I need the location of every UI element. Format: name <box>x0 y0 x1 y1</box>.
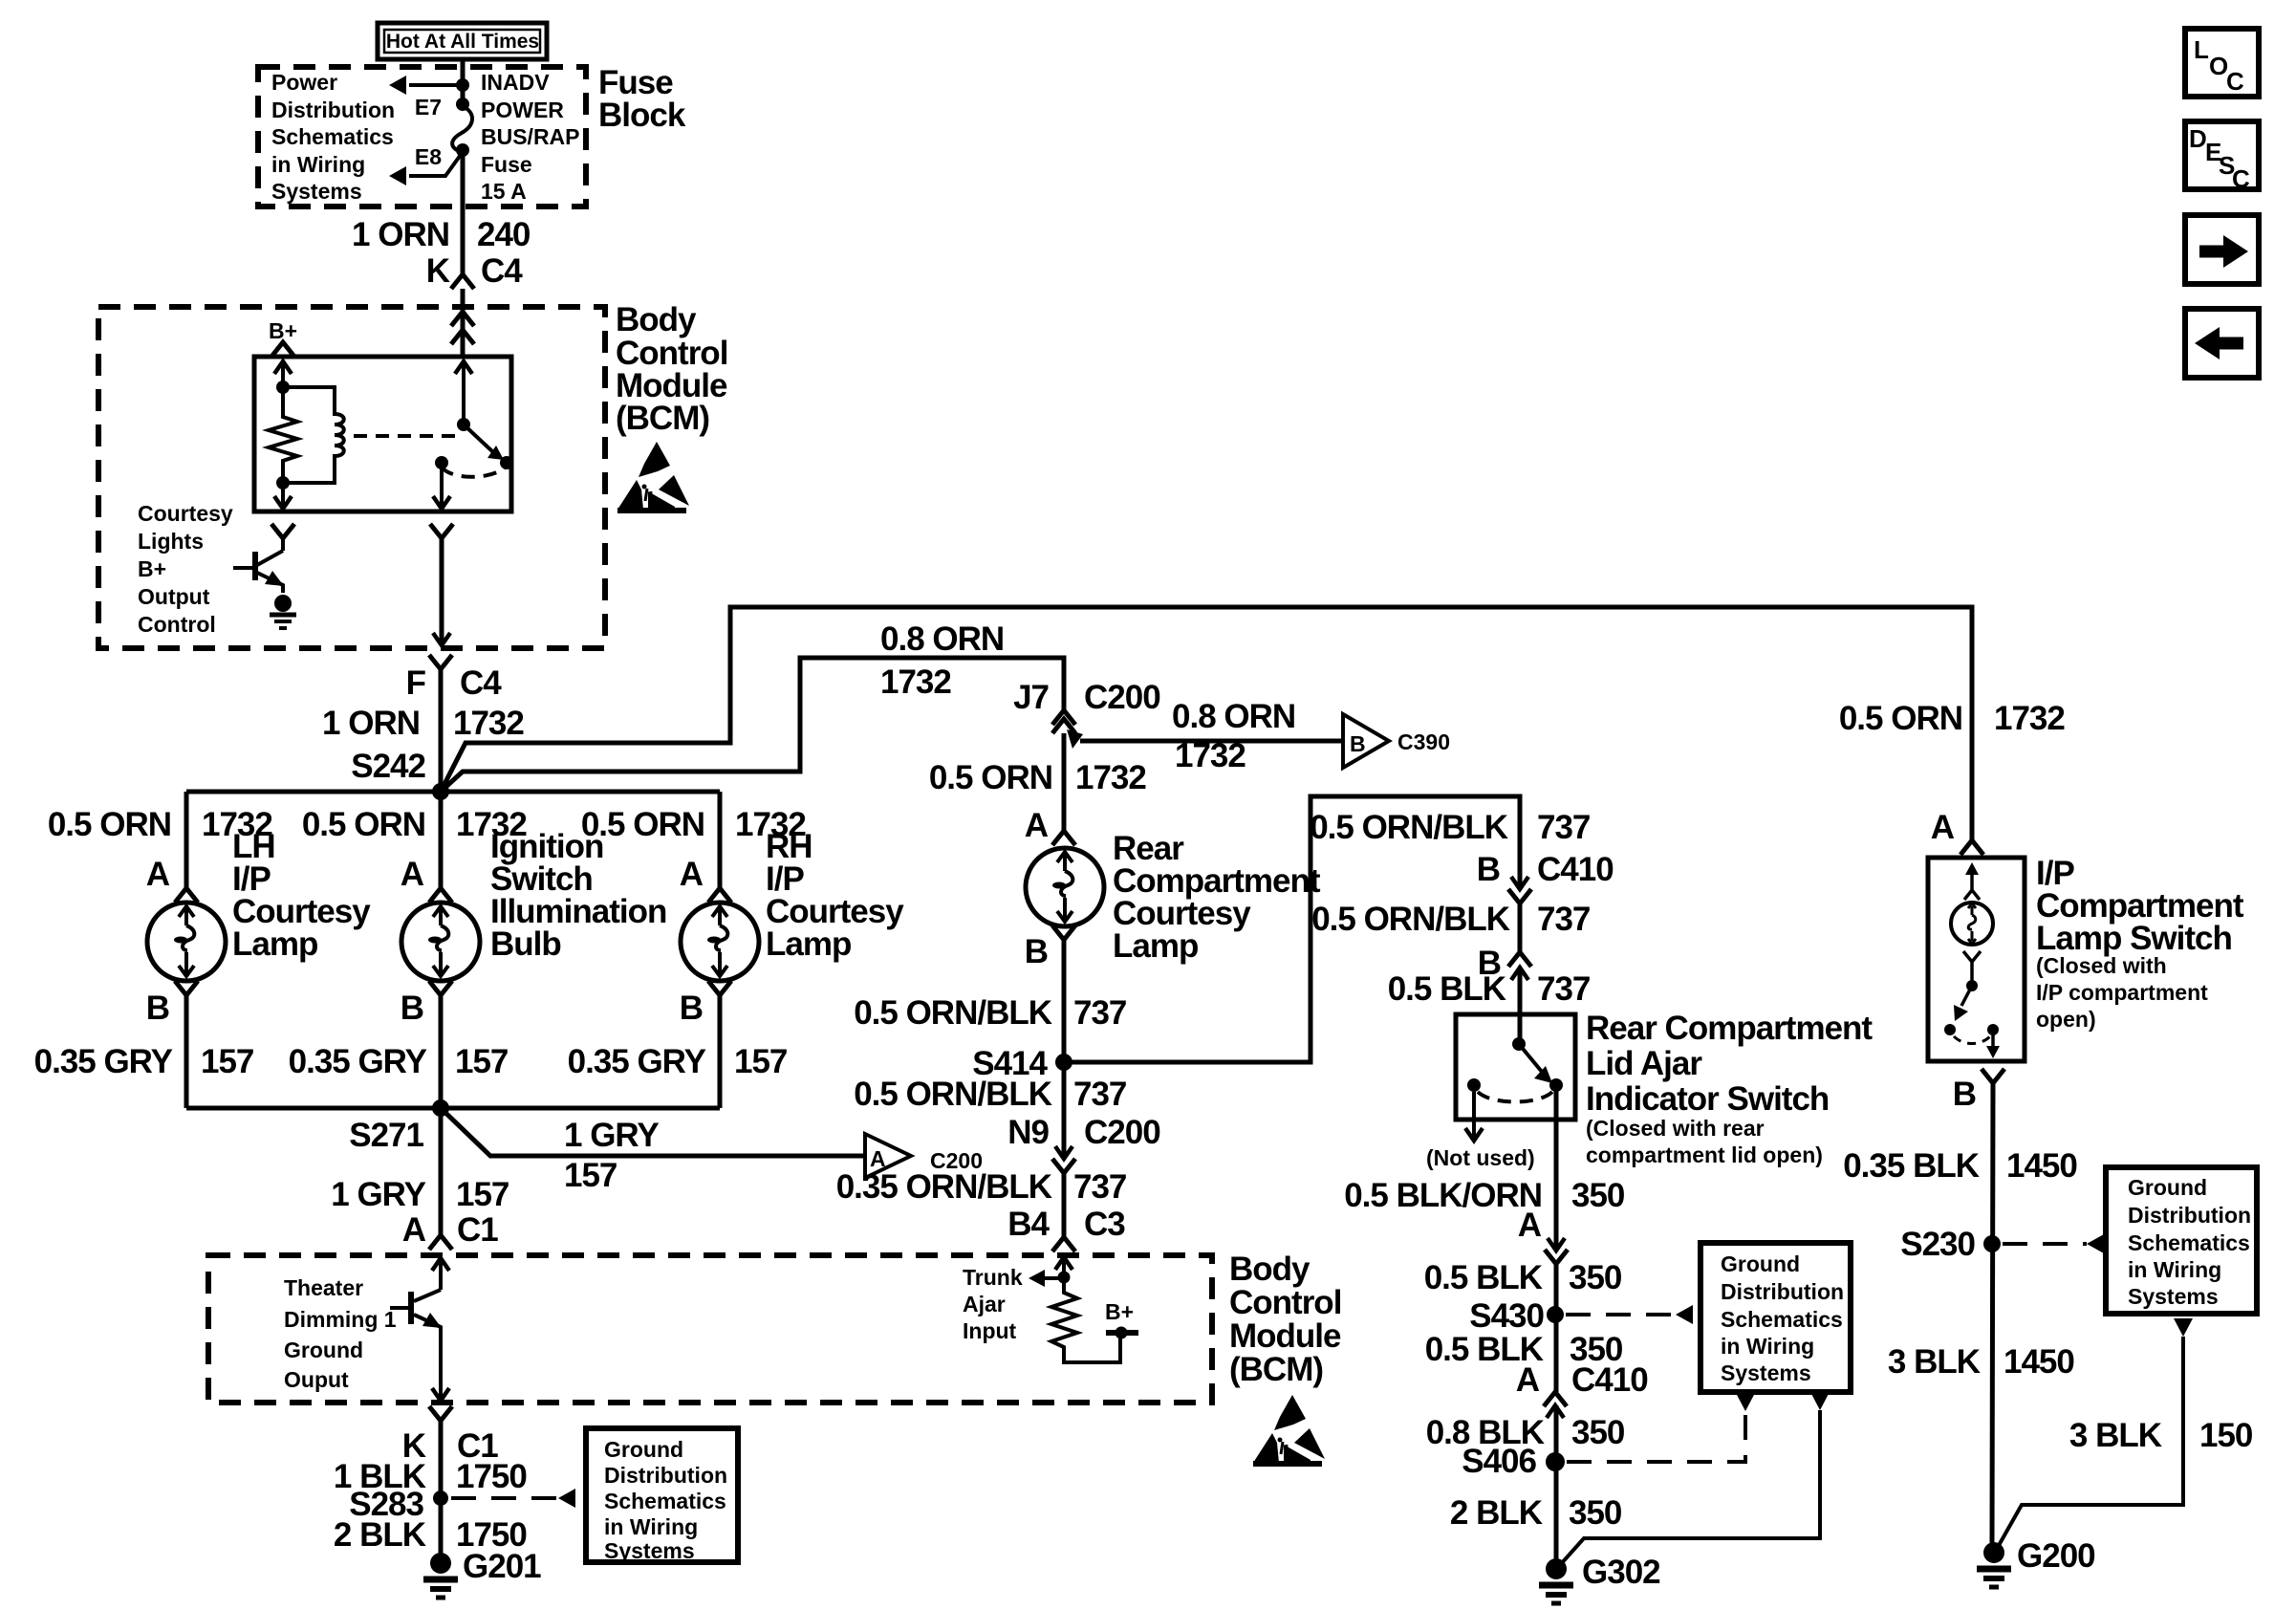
svg-text:1732: 1732 <box>880 664 951 701</box>
wire LH lamp drop <box>184 792 189 888</box>
label Ignition Switch Illumination Bulb <box>490 828 666 963</box>
lamp feed bus <box>186 790 720 794</box>
arrow trunk ajar input <box>1029 1270 1064 1287</box>
dashed link S230 to ground distribution box <box>2003 1234 2104 1253</box>
lamp RH I/P courtesy <box>681 903 759 981</box>
wire into theater dimming transistor <box>432 1258 449 1290</box>
wire IP switch to S230 <box>1992 1083 1993 1543</box>
arrow to power distribution (top) <box>389 76 469 95</box>
svg-text:1732: 1732 <box>1075 759 1146 796</box>
svg-text:1 GRY: 1 GRY <box>331 1176 425 1213</box>
svg-text:157: 157 <box>201 1043 253 1080</box>
svg-text:Lights: Lights <box>138 529 204 554</box>
svg-text:S430: S430 <box>1469 1297 1544 1335</box>
svg-text:Body: Body <box>1229 1251 1310 1288</box>
connector K C1 <box>429 1406 452 1421</box>
svg-text:S230: S230 <box>1900 1226 1975 1263</box>
svg-text:Lamp: Lamp <box>232 925 317 963</box>
pin B (rear lamp) <box>1052 925 1075 940</box>
arrow to power distribution (bottom) <box>389 152 463 185</box>
wire LH lamp to ground bus <box>184 995 189 1108</box>
wire to transistor <box>281 538 285 551</box>
svg-text:A: A <box>402 1211 426 1249</box>
IP compartment lamp switch box <box>1928 858 2025 1061</box>
svg-text:737: 737 <box>1537 901 1590 938</box>
IP switch input arrow <box>1964 862 1980 900</box>
svg-text:G201: G201 <box>463 1548 541 1585</box>
svg-text:2 BLK: 2 BLK <box>1450 1494 1543 1532</box>
label INADV POWER BUS/RAP Fuse 15 A <box>481 70 580 204</box>
svg-text:(Not used): (Not used) <box>1426 1145 1535 1170</box>
icon arrow right <box>2185 215 2259 284</box>
ground G201 <box>423 1553 458 1598</box>
lid switch dashed arc <box>1478 1092 1552 1102</box>
svg-text:1 ORN: 1 ORN <box>352 216 449 253</box>
connector B C390 (triangle) <box>1343 714 1450 768</box>
svg-text:C410: C410 <box>1571 1361 1648 1399</box>
svg-text:POWER: POWER <box>481 98 564 122</box>
svg-text:350: 350 <box>1571 1177 1625 1214</box>
node B+ (trunk ajar) <box>1105 1299 1138 1339</box>
relay switch arm <box>464 424 513 469</box>
svg-text:in Wiring: in Wiring <box>1721 1334 1814 1359</box>
hot-at-all-times box <box>378 23 547 59</box>
arrow at BCM bottom exit <box>432 1388 449 1401</box>
svg-text:(Closed with rear: (Closed with rear <box>1586 1116 1765 1141</box>
svg-text:0.5 BLK: 0.5 BLK <box>1388 970 1506 1008</box>
svg-text:2 BLK: 2 BLK <box>334 1516 426 1554</box>
svg-text:0.5 ORN/BLK: 0.5 ORN/BLK <box>854 994 1052 1032</box>
svg-text:Lamp: Lamp <box>766 925 851 963</box>
svg-text:Module: Module <box>1229 1317 1341 1355</box>
fuse block dashed box <box>258 67 586 207</box>
label Body Control Module (BCM) <box>616 301 727 437</box>
svg-text:0.35 GRY: 0.35 GRY <box>34 1043 173 1080</box>
transistor Q1 <box>233 551 284 593</box>
svg-text:INADV: INADV <box>481 70 550 95</box>
label Body Control Module (BCM) (lower) <box>1229 1251 1341 1388</box>
resistor R2 trunk ajar pull-up <box>1051 1277 1120 1362</box>
svg-text:Distribution: Distribution <box>271 98 395 122</box>
svg-text:(Closed with: (Closed with <box>2036 953 2167 978</box>
svg-text:0.8 ORN: 0.8 ORN <box>880 620 1004 658</box>
ESD symbol U1 <box>617 442 689 513</box>
svg-text:Lamp Switch: Lamp Switch <box>2036 920 2232 957</box>
svg-text:0.8 ORN: 0.8 ORN <box>1172 698 1295 735</box>
svg-text:in Wiring: in Wiring <box>2128 1257 2221 1282</box>
svg-text:B: B <box>146 990 169 1027</box>
relay coil L1 <box>283 387 344 483</box>
icon LOC <box>2185 29 2259 97</box>
IP switch dashed arc <box>1954 1036 1990 1044</box>
lid switch pivot and arm <box>1512 1037 1552 1083</box>
dashed link S406 to ground distribution box <box>1567 1393 1755 1462</box>
svg-text:0.5 ORN: 0.5 ORN <box>1839 700 1962 737</box>
relay switch input wire <box>455 361 472 431</box>
svg-text:Lamp: Lamp <box>1113 927 1198 965</box>
svg-text:in Wiring: in Wiring <box>604 1514 698 1539</box>
label I/P Compartment Lamp Switch <box>2036 855 2244 1032</box>
resistor R1 <box>269 387 297 483</box>
svg-text:1732: 1732 <box>1175 737 1245 774</box>
svg-text:A: A <box>680 856 704 893</box>
svg-text:BUS/RAP: BUS/RAP <box>481 124 580 149</box>
svg-text:B: B <box>680 990 703 1027</box>
svg-text:Lid Ajar: Lid Ajar <box>1586 1045 1702 1082</box>
IP switch contacts <box>1944 1024 1956 1035</box>
wire RH lamp to ground bus <box>718 995 723 1108</box>
svg-text:Fuse: Fuse <box>481 152 532 177</box>
svg-text:Indicator Switch: Indicator Switch <box>1586 1080 1829 1118</box>
wire into BCM trunk ajar input <box>1055 1257 1072 1284</box>
svg-text:A: A <box>1518 1207 1542 1244</box>
svg-text:A: A <box>401 856 424 893</box>
lamp rear compartment courtesy <box>1026 848 1104 926</box>
svg-text:1732: 1732 <box>453 705 524 742</box>
svg-text:Theater: Theater <box>284 1275 363 1300</box>
wire RH lamp drop <box>718 792 723 888</box>
label RH I/P Courtesy Lamp <box>766 828 904 963</box>
svg-text:240: 240 <box>477 216 531 253</box>
ground (transistor emitter) <box>270 595 296 628</box>
svg-text:Schematics: Schematics <box>604 1489 726 1513</box>
svg-text:Systems: Systems <box>1721 1360 1811 1385</box>
svg-text:C410: C410 <box>1537 851 1614 888</box>
relay coil feed wire <box>274 361 292 394</box>
body control module BCM dashed box <box>98 307 605 648</box>
svg-text:0.35 BLK: 0.35 BLK <box>1843 1147 1979 1185</box>
svg-text:B+: B+ <box>1105 1299 1134 1324</box>
svg-text:737: 737 <box>1537 970 1590 1008</box>
wire ignition bulb drop <box>439 792 444 888</box>
svg-text:737: 737 <box>1073 1168 1126 1206</box>
lamp ground bus <box>186 1106 720 1111</box>
svg-text:F: F <box>406 664 426 702</box>
svg-text:1450: 1450 <box>2006 1147 2077 1185</box>
ground distribution schematics box (middle) <box>1700 1243 1851 1392</box>
label Courtesy Lights B+ Output Control <box>138 501 233 637</box>
IP switch pivot and arm <box>1954 962 1978 1021</box>
svg-text:S271: S271 <box>349 1117 423 1154</box>
svg-text:0.5 ORN/BLK: 0.5 ORN/BLK <box>1310 809 1508 846</box>
svg-text:Body: Body <box>616 301 697 338</box>
svg-text:K: K <box>426 252 450 290</box>
svg-text:Distribution: Distribution <box>1721 1279 1844 1304</box>
svg-text:B: B <box>1477 851 1500 888</box>
svg-text:Block: Block <box>598 97 686 134</box>
svg-text:157: 157 <box>564 1157 617 1194</box>
wire C410 to lid switch <box>1518 903 1523 952</box>
svg-text:C1: C1 <box>457 1211 498 1249</box>
svg-text:open): open) <box>2036 1007 2096 1032</box>
wire to S430 <box>1554 1264 1559 1392</box>
svg-text:B: B <box>1350 731 1366 756</box>
svg-text:Ajar: Ajar <box>963 1292 1006 1316</box>
wire S271 branch to C200 <box>441 1108 865 1156</box>
body control module BCM dashed box (theater dimming) <box>208 1255 1212 1403</box>
svg-text:(BCM): (BCM) <box>616 400 709 437</box>
svg-text:B+: B+ <box>138 556 166 581</box>
svg-text:Input: Input <box>963 1318 1017 1343</box>
dashed link S430 to ground distribution box <box>1566 1305 1693 1324</box>
svg-text:E7: E7 <box>415 95 442 120</box>
svg-text:Systems: Systems <box>271 179 362 204</box>
svg-text:0.5 ORN: 0.5 ORN <box>929 759 1052 796</box>
wire S242 branch to 0.8 ORN run <box>441 658 1064 792</box>
pin B (mid) <box>429 981 452 995</box>
svg-text:Schematics: Schematics <box>271 124 394 149</box>
svg-text:Schematics: Schematics <box>2128 1230 2250 1255</box>
svg-text:Power: Power <box>271 70 337 95</box>
connector chevrons at BCM top <box>451 312 474 326</box>
svg-text:0.5 BLK: 0.5 BLK <box>1424 1259 1543 1296</box>
svg-text:1 ORN: 1 ORN <box>322 705 420 742</box>
lamp LH I/P courtesy <box>147 903 226 981</box>
svg-text:Rear Compartment: Rear Compartment <box>1586 1010 1873 1047</box>
ground G200 <box>1977 1542 2011 1587</box>
svg-text:1 GRY: 1 GRY <box>564 1117 659 1154</box>
svg-text:3 BLK: 3 BLK <box>2069 1417 2162 1454</box>
wire N9 to BCM trunk ajar <box>1062 1173 1067 1237</box>
svg-text:G200: G200 <box>2017 1537 2095 1575</box>
svg-text:Dimming 1: Dimming 1 <box>284 1307 397 1332</box>
wire to S242 <box>439 669 444 792</box>
label LH I/P Courtesy Lamp <box>232 828 371 963</box>
svg-text:N9: N9 <box>1007 1114 1049 1151</box>
wire lid switch output <box>1554 1085 1559 1251</box>
wire S271 to BCM theater dimming <box>439 1108 444 1235</box>
svg-text:737: 737 <box>1073 1076 1126 1113</box>
link ground distribution box to G200 <box>1997 1318 2193 1549</box>
svg-text:Distribution: Distribution <box>2128 1203 2251 1228</box>
svg-text:D: D <box>2189 124 2207 153</box>
svg-text:Ground: Ground <box>1721 1251 1800 1276</box>
svg-text:0.35 GRY: 0.35 GRY <box>568 1043 706 1080</box>
svg-text:L: L <box>2194 35 2209 64</box>
ground distribution schematics box (right) <box>2106 1167 2257 1314</box>
svg-text:Systems: Systems <box>2128 1284 2219 1309</box>
relay switch output wire <box>433 463 450 509</box>
svg-text:Ground: Ground <box>2128 1175 2207 1200</box>
lid switch contacts <box>1467 1078 1481 1092</box>
relay contact dashed arc <box>442 468 505 477</box>
label Power Distribution Schematics in Wiring Systems <box>271 70 395 204</box>
svg-text:Systems: Systems <box>604 1538 695 1563</box>
lamp IP compartment (small) <box>1951 903 1993 945</box>
connector A C200 (triangle) <box>865 1134 983 1178</box>
pin B (RH) <box>708 981 731 995</box>
relay coil lower node <box>276 476 290 490</box>
pin B (IP switch) <box>1982 1069 2004 1083</box>
wire rear lamp to S414 <box>1062 940 1067 1146</box>
svg-text:157: 157 <box>734 1043 787 1080</box>
svg-text:0.5 ORN/BLK: 0.5 ORN/BLK <box>854 1076 1052 1113</box>
svg-text:(BCM): (BCM) <box>1229 1351 1323 1388</box>
svg-text:J7: J7 <box>1013 679 1049 716</box>
wire S414 branch to lid switch <box>1064 796 1520 1062</box>
svg-text:Courtesy: Courtesy <box>138 501 233 526</box>
fuse F INADV POWER BUS/RAP 15A <box>452 98 472 157</box>
wire S242 branch to top-right run <box>441 607 1972 840</box>
label Rear Compartment Courtesy Lamp <box>1113 830 1321 965</box>
wire mid lamp to ground bus <box>439 995 444 1108</box>
svg-text:0.5 ORN: 0.5 ORN <box>302 806 425 843</box>
svg-text:0.5 ORN/BLK: 0.5 ORN/BLK <box>1311 901 1510 938</box>
svg-text:Bulb: Bulb <box>490 925 561 963</box>
label Rear Compartment Lid Ajar Indicator Switch <box>1586 1010 1873 1167</box>
arrow not used contact <box>1465 1092 1483 1141</box>
relay actuation dashed link <box>354 434 456 438</box>
icon arrow left <box>2185 309 2259 378</box>
rear compartment lid ajar indicator switch box <box>1456 1014 1575 1120</box>
svg-text:0.5 ORN: 0.5 ORN <box>48 806 171 843</box>
svg-text:3 BLK: 3 BLK <box>1888 1343 1981 1381</box>
IP switch output arrow <box>1986 1030 2000 1058</box>
svg-text:I/P compartment: I/P compartment <box>2036 980 2208 1005</box>
svg-text:G302: G302 <box>1582 1554 1660 1591</box>
relay output wire (coil side) <box>274 483 292 509</box>
lamp ignition switch illumination bulb <box>401 903 480 981</box>
svg-text:C: C <box>2226 67 2244 96</box>
svg-text:1732: 1732 <box>1994 700 2065 737</box>
svg-text:350: 350 <box>1569 1259 1622 1296</box>
ground G302 <box>1539 1558 1573 1603</box>
svg-text:A: A <box>1931 809 1955 846</box>
svg-text:C4: C4 <box>481 252 523 290</box>
svg-text:B4: B4 <box>1007 1206 1050 1243</box>
svg-text:0.5 ORN: 0.5 ORN <box>581 806 704 843</box>
svg-text:350: 350 <box>1569 1494 1622 1532</box>
svg-text:Control: Control <box>138 612 216 637</box>
wire fuse output <box>461 150 466 274</box>
svg-text:A: A <box>1025 807 1049 844</box>
label Theater Dimming 1 Ground Ouput <box>284 1275 397 1392</box>
svg-text:S406: S406 <box>1462 1443 1536 1480</box>
svg-text:15 A: 15 A <box>481 179 527 204</box>
svg-text:S242: S242 <box>351 748 425 785</box>
icon DESC <box>2185 121 2259 193</box>
svg-text:C: C <box>2232 164 2250 193</box>
svg-text:C390: C390 <box>1397 729 1450 754</box>
svg-text:B: B <box>1953 1076 1976 1113</box>
connector F C4 <box>429 655 452 669</box>
link ground distribution box to G302 <box>1560 1392 1830 1565</box>
svg-text:A: A <box>1516 1361 1540 1399</box>
svg-text:B: B <box>1025 933 1048 970</box>
svg-text:E8: E8 <box>415 144 442 169</box>
svg-text:in Wiring: in Wiring <box>271 152 365 177</box>
wire J7 to rear lamp <box>1062 733 1067 831</box>
svg-text:737: 737 <box>1073 994 1126 1032</box>
pin B (LH) <box>175 981 198 995</box>
transistor Q2 theater dimming <box>390 1290 442 1400</box>
svg-text:Ouput: Ouput <box>284 1367 349 1392</box>
svg-text:0.5 BLK/ORN: 0.5 BLK/ORN <box>1344 1177 1542 1214</box>
svg-text:B: B <box>401 990 423 1027</box>
connector below relay (coil side) <box>271 524 294 538</box>
svg-text:compartment lid open): compartment lid open) <box>1586 1142 1823 1167</box>
wire into BCM <box>461 289 466 357</box>
relay switch contact <box>435 456 448 469</box>
svg-text:C3: C3 <box>1084 1206 1125 1243</box>
wire from hot box to fuse <box>461 59 466 104</box>
svg-text:Ground: Ground <box>604 1437 683 1462</box>
ESD symbol U2 <box>1253 1395 1325 1467</box>
relay K1 box <box>254 357 511 511</box>
svg-text:C200: C200 <box>1084 679 1160 716</box>
svg-text:Trunk: Trunk <box>963 1265 1023 1290</box>
wire relay output to BCM edge <box>433 538 450 645</box>
svg-text:Hot At All Times: Hot At All Times <box>386 31 539 53</box>
svg-text:350: 350 <box>1571 1414 1625 1451</box>
svg-text:157: 157 <box>455 1043 508 1080</box>
svg-text:157: 157 <box>456 1176 509 1213</box>
svg-text:Control: Control <box>1229 1284 1341 1321</box>
dashed link S283 to ground distribution box <box>451 1489 575 1508</box>
svg-text:Distribution: Distribution <box>604 1463 727 1488</box>
wire to S283 <box>439 1421 444 1555</box>
connector below relay (switch side) <box>430 524 453 538</box>
svg-text:1450: 1450 <box>2004 1343 2074 1381</box>
svg-text:0.35 GRY: 0.35 GRY <box>289 1043 427 1080</box>
svg-text:Output: Output <box>138 584 210 609</box>
svg-text:Schematics: Schematics <box>1721 1307 1843 1332</box>
svg-text:C200: C200 <box>1084 1114 1160 1151</box>
svg-text:1750: 1750 <box>456 1458 527 1495</box>
svg-text:737: 737 <box>1537 809 1590 846</box>
svg-text:A: A <box>146 856 170 893</box>
ground distribution schematics box (left) <box>586 1428 738 1563</box>
svg-text:C4: C4 <box>460 664 502 702</box>
svg-text:0.35 ORN/BLK: 0.35 ORN/BLK <box>836 1168 1052 1206</box>
wire branch to C390 <box>1067 729 1343 749</box>
svg-text:150: 150 <box>2199 1417 2253 1454</box>
IP switch internal connector <box>1963 951 1981 962</box>
svg-text:Ground: Ground <box>284 1338 363 1362</box>
label Trunk Ajar Input <box>963 1265 1023 1343</box>
